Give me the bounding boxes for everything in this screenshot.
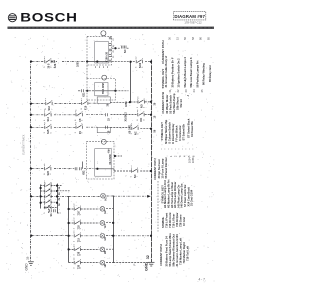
- lamp row y262.6: [69, 261, 150, 263]
- svg-text:5: 5: [135, 66, 137, 68]
- svg-text:5: 5: [44, 212, 46, 214]
- svg-text:31 Ground Cable Body Lf: 31 Ground Cable Body Lf: [164, 56, 168, 88]
- lamp return bus: [113, 196, 115, 263]
- svg-text:56: 56: [154, 129, 157, 132]
- GND 32 label right: [144, 255, 150, 271]
- svg-text:2: 2: [175, 155, 178, 157]
- svg-text:NC: NC: [134, 174, 137, 178]
- svg-text:7: 7: [44, 181, 46, 183]
- svg-text:8: 8: [75, 119, 77, 121]
- svg-text:31 Ground Junction G104: 31 Ground Junction G104: [175, 234, 179, 267]
- svg-text:58b Dimmer Rheostat Out: 58b Dimmer Rheostat Out: [171, 234, 175, 267]
- svg-text:15: 15: [175, 37, 179, 40]
- wire row y61.5 inside box1: [87, 61, 108, 63]
- svg-text:NO2: NO2: [139, 62, 142, 68]
- svg-text:62-4 N30: 62-4 N30: [109, 154, 112, 165]
- second symbols x75-85: [81, 100, 88, 105]
- svg-text:716: 716: [78, 211, 81, 216]
- svg-text:7: 7: [81, 99, 83, 101]
- svg-text:CURRENT PATH: CURRENT PATH: [153, 158, 157, 180]
- cluster bottom connectors going down: [49, 209, 61, 214]
- svg-text:ST Swivel Back: ST Swivel Back: [187, 118, 191, 138]
- svg-text:X3: X3: [185, 89, 188, 93]
- svg-text:4: 4: [44, 164, 46, 166]
- lamp row y223: [69, 222, 114, 224]
- right column switches: [136, 58, 143, 63]
- svg-text:30 Wiper Motor: 30 Wiper Motor: [165, 95, 169, 114]
- svg-text:7: 7: [131, 166, 133, 168]
- svg-text:15 Fuse 8 Lamp: 15 Fuse 8 Lamp: [160, 158, 164, 178]
- svg-text:85: 85: [207, 37, 211, 40]
- svg-text:7: 7: [51, 108, 53, 110]
- svg-text:-0d+: -0d+: [107, 148, 110, 154]
- svg-text:F Fuse Block: F Fuse Block: [174, 125, 178, 142]
- block B columns: [164, 119, 186, 143]
- svg-text:86: 86: [199, 37, 203, 40]
- svg-text:NC: NC: [124, 49, 127, 53]
- svg-text:85: 85: [113, 49, 115, 52]
- svg-text:56a High Beam Lamps 4: 56a High Beam Lamps 4: [183, 57, 187, 88]
- block E columns: [161, 212, 186, 228]
- cluster bus left: [40, 185, 42, 209]
- svg-text:30: 30: [168, 37, 172, 40]
- header rule: [8, 27, 215, 29]
- svg-text:30 5: 30 5: [48, 63, 51, 68]
- connector pins right edge of K1: [109, 37, 112, 62]
- svg-text:30: 30: [113, 55, 115, 58]
- svg-text:5: 5: [50, 132, 52, 134]
- svg-text:719 Lf Rear: 719 Lf Rear: [171, 214, 175, 228]
- wire row y61.5 left: [32, 61, 45, 63]
- svg-text:0: 0: [137, 110, 139, 112]
- svg-text:30 Battery Positive B+ F: 30 Battery Positive B+ F: [171, 57, 175, 88]
- svg-text:J: J: [186, 95, 190, 97]
- svg-text:15: 15: [107, 130, 110, 133]
- svg-text:S Column Switch: S Column Switch: [167, 122, 171, 144]
- svg-text:K100 t30: K100 t30: [106, 51, 109, 62]
- svg-text:S15: S15: [47, 129, 50, 134]
- svg-text:CURRENT PATH: CURRENT PATH: [161, 92, 165, 114]
- svg-text:BOSCH: BOSCH: [20, 11, 77, 24]
- svg-text:DIAGRAM #97: DIAGRAM #97: [174, 14, 205, 19]
- short vert near box3: [81, 162, 83, 169]
- svg-text:15: 15: [154, 115, 157, 118]
- ground bus right: [151, 60, 153, 263]
- table T1 header marks: [168, 37, 211, 40]
- svg-text:30: 30: [107, 103, 110, 106]
- lamp row y209: [69, 208, 114, 210]
- svg-text:15: 15: [107, 118, 110, 121]
- svg-text:53 Park Switch: 53 Park Switch: [168, 95, 172, 114]
- svg-text:8: 8: [45, 108, 47, 110]
- svg-text:P: P: [133, 264, 137, 266]
- svg-text:0: 0: [143, 119, 145, 121]
- svg-text:56: 56: [183, 37, 187, 40]
- cluster bus right: [57, 184, 59, 214]
- lamp row y249.4: [69, 248, 114, 250]
- component value labels (rotated): [47, 49, 157, 269]
- svg-text:9: 9: [73, 218, 75, 220]
- svg-text:X4: X4: [193, 89, 196, 93]
- wire y156 stub from box3: [115, 155, 122, 157]
- svg-text:K Intermit Relay: K Intermit Relay: [171, 123, 175, 144]
- svg-text:2: 2: [50, 119, 52, 121]
- svg-text:5: 5: [188, 155, 191, 157]
- relay box K1 dashed outer: [86, 31, 115, 179]
- Bosch logo armature symbol: [8, 14, 16, 22]
- svg-text:M Wiper Motor 2Sp: M Wiper Motor 2Sp: [164, 119, 168, 143]
- svg-text:31 Gnd: 31 Gnd: [182, 217, 186, 226]
- wire row y61.9 right of box1: [112, 61, 151, 63]
- svg-text:1056: 1056: [192, 157, 195, 163]
- svg-text:NO: NO: [140, 118, 143, 122]
- table T1 columns: [164, 56, 212, 88]
- GND 31 label left: [24, 256, 29, 270]
- svg-text:30 Battery Feed Fuse 14: 30 Battery Feed Fuse 14: [164, 236, 168, 267]
- svg-text:NO: NO: [141, 104, 144, 108]
- motor circle M2 on box K2: [102, 75, 107, 80]
- svg-text:87: 87: [113, 37, 115, 40]
- svg-text:1054: 1054: [125, 101, 128, 107]
- svg-text:718 Rt Front: 718 Rt Front: [168, 212, 172, 228]
- ticks below K1: [96, 66, 108, 68]
- motor circle M3 on box K3: [101, 139, 106, 144]
- block C spaced index marks: [170, 155, 196, 157]
- cluster switches: [45, 182, 52, 187]
- svg-text:31 Power Bk: 31 Power Bk: [190, 121, 194, 137]
- svg-text:X Connector: X Connector: [178, 125, 182, 141]
- svg-text:8: 8: [137, 119, 139, 121]
- fuse boxes middle column: [97, 97, 110, 103]
- lamp row y235.8 long: [32, 235, 152, 237]
- wire row y114.6: [32, 114, 106, 116]
- svg-text:58 Panel Dimmer: 58 Panel Dimmer: [164, 157, 168, 178]
- svg-text:CURRENT PATH: CURRENT PATH: [159, 244, 163, 266]
- lamp row switches: [74, 206, 81, 211]
- svg-text:1: 1: [170, 155, 173, 157]
- svg-text:SYMBOL: SYMBOL: [161, 216, 165, 228]
- svg-text:0: 0: [44, 186, 46, 188]
- svg-text:7: 7: [87, 108, 89, 110]
- svg-text:5: 5: [135, 57, 137, 59]
- svg-text:1e: 1e: [58, 186, 61, 189]
- svg-text:S22: S22: [47, 170, 50, 175]
- svg-text:CURRENT TRACK: CURRENT TRACK: [23, 134, 26, 155]
- svg-text:F8: F8: [79, 118, 82, 122]
- svg-text:d: d: [48, 205, 51, 207]
- svg-text:5: 5: [131, 175, 133, 177]
- svg-text:3: 3: [73, 267, 75, 269]
- svg-text:53b Shunt: 53b Shunt: [175, 97, 179, 110]
- svg-text:53a Wash Pump: 53a Wash Pump: [172, 93, 176, 114]
- svg-text:6: 6: [44, 119, 46, 121]
- svg-text:5: 5: [142, 66, 144, 68]
- svg-text:7: 7: [45, 99, 47, 101]
- short bus x130: [130, 62, 132, 102]
- svg-text:F10: F10: [85, 105, 88, 110]
- svg-text:4: 4: [75, 110, 77, 112]
- svg-text:4: 4: [184, 155, 187, 157]
- block A columns: [165, 93, 190, 114]
- marks above cluster: [45, 183, 51, 184]
- svg-text:0: 0: [73, 258, 75, 260]
- svg-text:719: 719: [78, 238, 81, 243]
- wire row y103.3: [32, 102, 98, 104]
- svg-text:86 Relay Winding: 86 Relay Winding: [202, 63, 206, 85]
- svg-text:32: 32: [146, 255, 150, 259]
- wire y48 from box1 to comp: [112, 47, 129, 49]
- dotted row under block B: [161, 148, 195, 150]
- svg-text:F9: F9: [79, 130, 82, 134]
- table separator dashed: [157, 181, 159, 232]
- wire row y90.8 through box2: [78, 90, 95, 92]
- svg-text:4 - 7: 4 - 7: [199, 278, 206, 282]
- vert dash connecting K1 to K2: [86, 65, 88, 78]
- cluster rows: [41, 185, 62, 187]
- svg-text:1: 1: [44, 132, 46, 134]
- switch terminal number labels: [44, 57, 146, 269]
- svg-text:728: 728: [78, 264, 81, 269]
- svg-text:S16: S16: [48, 105, 51, 110]
- svg-text:178-7097-C12: 178-7097-C12: [184, 20, 202, 24]
- switches left column: [44, 46, 144, 265]
- arrow into ground bus at y196: [147, 195, 151, 198]
- block C columns: [157, 157, 168, 178]
- wire row y127.2: [32, 126, 98, 128]
- lamps H1-H6: [100, 193, 105, 265]
- svg-text:X1056 2: X1056 2: [125, 112, 128, 122]
- svg-text:719 Tail Left: 719 Tail Left: [185, 246, 189, 261]
- svg-text:S30: S30: [54, 63, 57, 68]
- conn entering box2: [82, 89, 84, 92]
- svg-text:2e: 2e: [58, 192, 61, 195]
- svg-text:58 Lamp Switch Feed Wire: 58 Lamp Switch Feed Wire: [168, 233, 172, 267]
- top small comp y48: [121, 46, 123, 49]
- relay box K2 dashed outer: [87, 78, 115, 100]
- DIAGRAM box: [174, 12, 206, 20]
- svg-text:8: 8: [44, 173, 46, 175]
- svg-text:7: 7: [137, 175, 139, 177]
- svg-text:53c Int: 53c Int: [179, 99, 183, 107]
- svg-text:56b Low Beam Lamps 6: 56b Low Beam Lamps 6: [189, 57, 193, 87]
- ground symbol right bus GND32: [148, 262, 155, 266]
- svg-text:3: 3: [73, 254, 75, 256]
- svg-text:716 Marker Lamp Left: 716 Marker Lamp Left: [178, 238, 182, 265]
- motor circle M1 on box K1: [101, 31, 106, 36]
- svg-text:726: 726: [78, 251, 81, 256]
- small comp ticks rows 114/127: [106, 113, 108, 116]
- K1 pin numbers: [113, 37, 115, 58]
- svg-text:0: 0: [73, 245, 75, 247]
- svg-text:15 Ignition Switch On 2: 15 Ignition Switch On 2: [177, 58, 181, 88]
- svg-text:X5: X5: [201, 89, 204, 93]
- svg-text:3: 3: [179, 155, 182, 157]
- svg-text:2: 2: [73, 227, 75, 229]
- svg-text:1: 1: [75, 131, 77, 133]
- table T1 bottom marks: [169, 89, 204, 93]
- svg-text:b: b: [48, 194, 51, 196]
- block C small right block: [188, 157, 195, 163]
- scan speckle: [6, 34, 215, 282]
- block D columns: [163, 180, 193, 208]
- svg-text:8: 8: [81, 108, 83, 110]
- svg-text:58: 58: [191, 37, 195, 40]
- block B right columns: [187, 118, 195, 138]
- svg-text:S14: S14: [47, 116, 50, 121]
- svg-text:SYMBOL KEY: SYMBOL KEY: [160, 122, 164, 141]
- long wire row y196.4: [32, 195, 100, 197]
- relay box K3 inner: [95, 149, 112, 177]
- svg-text:3e: 3e: [58, 197, 61, 200]
- relay box K2 inner: [95, 83, 108, 96]
- wire row y168.6: [32, 168, 95, 170]
- svg-text:69 1031: 69 1031: [129, 124, 132, 134]
- svg-text:6: 6: [193, 155, 196, 157]
- svg-text:a: a: [48, 188, 51, 190]
- block F columns: [164, 233, 189, 267]
- lamp feed bus: [68, 197, 70, 263]
- svg-text:9: 9: [75, 122, 77, 124]
- svg-text:GND: GND: [24, 263, 28, 271]
- svg-text:X2: X2: [177, 89, 180, 93]
- svg-text:2: 2: [144, 106, 146, 108]
- svg-text:31 Gnd G104: 31 Gnd G104: [190, 189, 194, 206]
- svg-text:1: 1: [73, 240, 75, 242]
- svg-text:2: 2: [73, 213, 75, 215]
- svg-text:X21: X21: [83, 92, 86, 97]
- relay box K1 inner: [95, 42, 109, 63]
- left dash-dot bus: [30, 61, 32, 262]
- svg-text:5: 5: [137, 133, 139, 135]
- ground symbol left bus: [28, 262, 34, 266]
- svg-text:718 Marker Right: 718 Marker Right: [182, 242, 186, 263]
- svg-text:716 Lf Front: 716 Lf Front: [164, 213, 168, 228]
- svg-text:58 Parking Lamps Frt: 58 Parking Lamps Frt: [195, 61, 199, 88]
- svg-text:30: 30: [154, 102, 157, 105]
- relay box K3 dashed outer: [86, 141, 114, 179]
- svg-text:30 Ign Sw Feed: 30 Ign Sw Feed: [157, 159, 161, 178]
- svg-text:4e: 4e: [58, 203, 61, 206]
- svg-text:4: 4: [50, 173, 52, 175]
- svg-text:718: 718: [78, 225, 81, 230]
- svg-text:85 Relay Gnd: 85 Relay Gnd: [208, 65, 212, 82]
- svg-text:c: c: [48, 199, 51, 201]
- svg-text:ST Swivel Bk: ST Swivel Bk: [181, 124, 185, 141]
- svg-text:NC: NC: [135, 131, 138, 135]
- svg-text:1: 1: [137, 106, 139, 108]
- svg-text:5: 5: [44, 66, 46, 68]
- svg-text:TM2 4PM: TM2 4PM: [102, 83, 105, 94]
- svg-text:2: 2: [44, 57, 46, 59]
